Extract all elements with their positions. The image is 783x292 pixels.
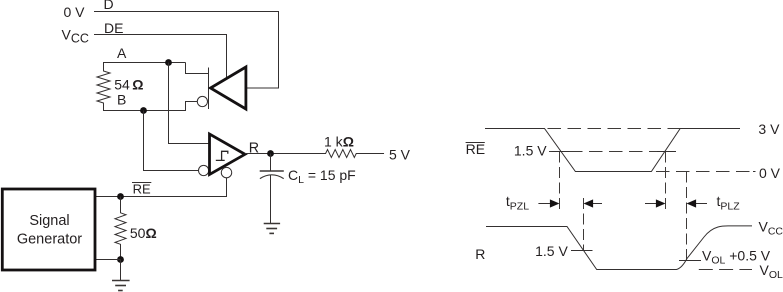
svg-text:1.5 V: 1.5 V	[535, 243, 568, 259]
wire node A to receiver input	[169, 63, 210, 144]
tick at RE falling 1.5V crossing	[552, 151, 570, 153]
svg-text:A: A	[117, 45, 127, 61]
resistor R1 54 ohm	[97, 63, 110, 111]
svg-text:D: D	[104, 0, 114, 12]
receiver U2	[210, 134, 246, 175]
wire B row	[103, 102, 197, 111]
node B junction dot	[140, 107, 147, 114]
wire R output	[245, 153, 318, 155]
resistor R3 50 ohm	[115, 197, 126, 260]
vertical dashed line 4	[686, 172, 688, 261]
driver output bar	[208, 68, 210, 110]
node A junction dot	[165, 59, 172, 66]
hysteresis symbol	[216, 151, 228, 160]
wire SG bottom to node	[95, 259, 121, 261]
svg-text:0 V: 0 V	[63, 4, 85, 20]
svg-text:3 V: 3 V	[758, 121, 780, 137]
dashed 1.5V level top	[549, 151, 672, 153]
svg-text:CL = 15 pF: CL = 15 pF	[288, 167, 356, 186]
vertical dashed line 1	[559, 152, 561, 213]
receiver enable bubble	[221, 167, 231, 177]
svg-text:tPLZ: tPLZ	[717, 193, 741, 212]
svg-text:0 V: 0 V	[759, 165, 781, 181]
arrow tPZL left	[592, 203, 603, 205]
svg-text:tPZL: tPZL	[506, 193, 529, 212]
wire A to driver output stub	[186, 63, 209, 74]
svg-text:R: R	[475, 246, 485, 262]
svg-text:VCC: VCC	[62, 27, 89, 46]
node RE junction dot	[117, 193, 124, 200]
node SG bottom junction dot	[117, 256, 124, 263]
svg-text:1 kΩ: 1 kΩ	[324, 133, 354, 149]
dashed 3V level	[548, 128, 681, 130]
signal generator box	[2, 189, 95, 270]
svg-text:RE: RE	[466, 141, 485, 157]
RE waveform trace	[485, 129, 740, 172]
wire D	[94, 12, 279, 89]
dashed VOL level	[699, 269, 752, 271]
svg-text:Generator: Generator	[17, 232, 82, 248]
receiver inverting input bubble	[199, 165, 209, 175]
svg-text:B: B	[117, 92, 126, 108]
ground under 50 ohm	[120, 260, 122, 281]
arrow tPLZ right	[645, 203, 657, 205]
tick at RE rising 1.5V crossing	[657, 151, 676, 153]
driver inverting output bubble	[197, 96, 207, 106]
svg-text:50Ω: 50Ω	[130, 225, 157, 241]
vertical dashed line 3	[665, 152, 667, 214]
tick at R falling 1.5V crossing	[571, 250, 593, 252]
dashed 0V level	[656, 171, 750, 173]
wire node B to receiver inverting input	[144, 111, 199, 171]
tick at R rising VOL+0.5 crossing	[679, 260, 701, 262]
wire enable to RE node	[95, 178, 227, 197]
svg-text:DE: DE	[104, 20, 123, 36]
wire A row	[103, 62, 186, 64]
svg-text:VCC: VCC	[759, 219, 783, 238]
ground under CL	[264, 224, 280, 234]
R waveform trace	[486, 226, 752, 270]
driver U1	[211, 67, 246, 109]
wire DE	[94, 35, 227, 78]
svg-text:54Ω: 54Ω	[114, 76, 143, 92]
node R junction dot	[267, 150, 274, 157]
resistor R2 1 kohm	[318, 150, 385, 158]
svg-text:5 V: 5 V	[389, 147, 411, 163]
vertical dashed line 2	[583, 198, 585, 251]
svg-text:Signal: Signal	[29, 213, 69, 229]
svg-text:RE: RE	[133, 182, 151, 197]
arrow tPLZ left	[695, 203, 707, 205]
arrow tPZL right	[538, 203, 551, 205]
capacitor CL	[270, 154, 272, 172]
svg-text:1.5 V: 1.5 V	[514, 142, 547, 158]
svg-text:VOL: VOL	[760, 262, 783, 281]
